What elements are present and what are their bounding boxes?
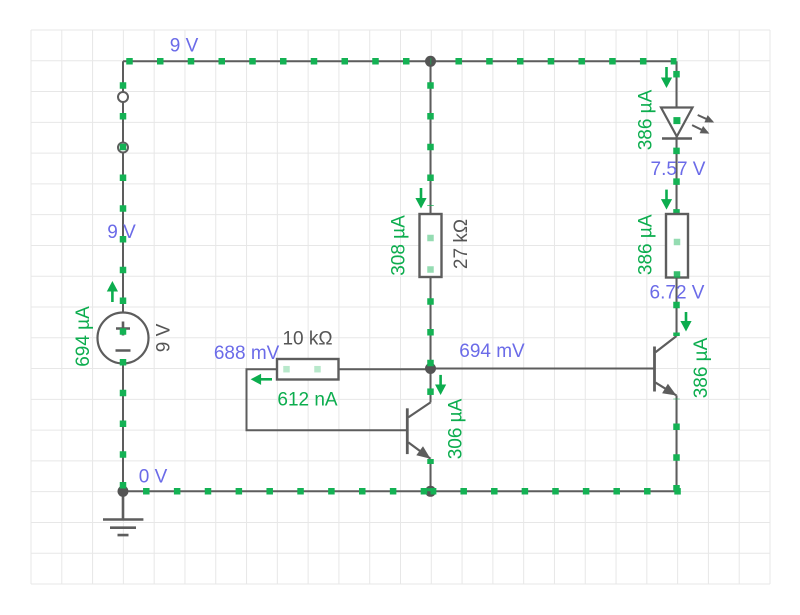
svg-text:10 kΩ: 10 kΩ <box>282 328 332 349</box>
svg-text:688 mV: 688 mV <box>214 343 280 364</box>
svg-text:27 kΩ: 27 kΩ <box>451 219 472 269</box>
svg-text:612 nA: 612 nA <box>277 389 338 410</box>
svg-text:6.72 V: 6.72 V <box>650 282 705 303</box>
svg-text:694 µA: 694 µA <box>73 306 94 367</box>
svg-text:7.57 V: 7.57 V <box>651 159 706 180</box>
svg-text:386 µA: 386 µA <box>635 89 656 150</box>
svg-text:694 mV: 694 mV <box>459 341 525 362</box>
svg-text:386 µA: 386 µA <box>691 337 712 398</box>
svg-text:9 V: 9 V <box>153 323 174 352</box>
svg-text:9 V: 9 V <box>170 35 199 56</box>
svg-text:308 µA: 308 µA <box>388 215 409 276</box>
svg-text:386 µA: 386 µA <box>635 214 656 275</box>
svg-text:9 V: 9 V <box>107 222 136 243</box>
svg-text:306 µA: 306 µA <box>445 398 466 459</box>
svg-text:0 V: 0 V <box>139 466 168 487</box>
